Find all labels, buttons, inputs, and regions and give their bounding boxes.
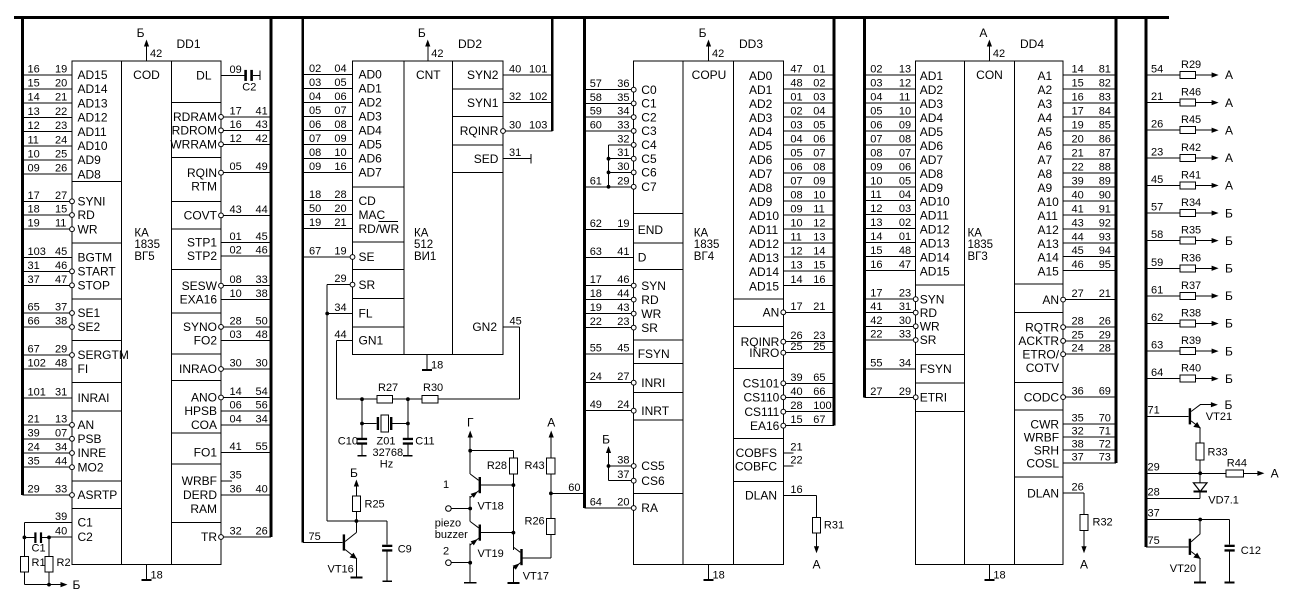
node junction VT16 collector (355, 519, 359, 523)
svg-text:AD1: AD1 (749, 83, 773, 97)
svg-text:15: 15 (870, 245, 882, 257)
svg-text:SYN2: SYN2 (467, 68, 499, 82)
svg-text:10: 10 (230, 288, 242, 300)
svg-text:38: 38 (256, 288, 268, 300)
DD4 pin A4 wire (pins 17/84) (1063, 116, 1116, 118)
DD4 pin AD2 wire (pins 03/12) (865, 88, 916, 90)
svg-text:41: 41 (256, 105, 268, 117)
svg-text:18: 18 (590, 288, 602, 300)
DD4 pin AD12 wire (pins 13/02) (865, 228, 916, 230)
wire 60 to DD3 left bus (551, 492, 585, 494)
svg-text:01: 01 (790, 91, 802, 103)
svg-text:C2: C2 (78, 530, 94, 544)
svg-text:10: 10 (334, 147, 346, 159)
svg-text:FO2: FO2 (194, 334, 218, 348)
svg-text:43: 43 (617, 302, 629, 314)
svg-text:09: 09 (870, 161, 882, 173)
svg-text:A6: A6 (1038, 139, 1053, 153)
svg-text:WR: WR (641, 307, 661, 321)
svg-text:14: 14 (790, 274, 802, 286)
DD2 left column section divider y=298.5 (353, 298, 405, 300)
DD1 pin INRE wire (pins 24/34) (23, 452, 73, 454)
svg-text:26: 26 (256, 526, 268, 538)
svg-text:32: 32 (509, 91, 521, 103)
DD3 right column section divider y=368.3 (733, 367, 783, 369)
DD4 pin AD3 wire (pins 04/11) (865, 102, 916, 104)
svg-text:69: 69 (1099, 386, 1111, 398)
svg-text:91: 91 (1099, 203, 1111, 215)
DD3 pin AD7 wire (pins 06/08) (783, 172, 834, 174)
svg-text:47: 47 (790, 63, 802, 75)
svg-text:Б: Б (1225, 206, 1233, 220)
svg-text:SYN1: SYN1 (467, 96, 499, 110)
svg-text:10: 10 (790, 218, 802, 230)
resistor R45 row (pin 26, net А) (1146, 129, 1180, 131)
wire pin 37 row (1146, 519, 1230, 521)
svg-text:Hz: Hz (380, 458, 393, 470)
DD3 pin RA wire (pins 64/20) (585, 507, 634, 509)
svg-text:A8: A8 (1038, 167, 1053, 181)
svg-text:61: 61 (590, 175, 602, 187)
DD2 pin SR wire (pin 29) (327, 284, 352, 286)
DD4 pin A7 wire (pins 21/87) (1063, 158, 1116, 160)
svg-text:RD: RD (920, 306, 938, 320)
svg-text:AD8: AD8 (920, 167, 944, 181)
svg-text:06: 06 (334, 91, 346, 103)
DD1 pin STOP wire (pins 37/47) (23, 284, 73, 286)
svg-text:AD14: AD14 (749, 265, 779, 279)
svg-text:03: 03 (870, 77, 882, 89)
svg-text:A10: A10 (1038, 195, 1060, 209)
DD1 pin FO2 wire (pins 03/48) (221, 340, 271, 342)
DD4 left column section divider y=285 (916, 284, 965, 286)
DD4 pin AN wire (pins 27/21) (1063, 299, 1116, 301)
DD1 pin STP2 wire (pins 02/46) (221, 255, 271, 257)
svg-text:12: 12 (870, 203, 882, 215)
svg-text:1835: 1835 (694, 239, 720, 251)
svg-text:COBFC: COBFC (735, 459, 777, 473)
svg-text:AD1: AD1 (359, 82, 383, 96)
DD4 right bus vertical (1115, 16, 1118, 463)
svg-text:37: 37 (28, 274, 40, 286)
svg-text:37: 37 (1072, 452, 1084, 464)
DD4 pin A15 wire (pins 46/95) (1063, 270, 1116, 272)
svg-text:45: 45 (256, 231, 268, 243)
DD1 pin FI wire (pins 102/48) (23, 368, 73, 370)
DD4 pin SRH wire (pins 38/72) (1063, 449, 1116, 451)
svg-text:C2: C2 (641, 110, 657, 124)
DD1 right column section divider y=353.9 (172, 353, 222, 355)
DD1 pin AD14 wire (pins 15/20) (23, 88, 73, 90)
svg-text:05: 05 (870, 105, 882, 117)
svg-text:R46: R46 (1181, 87, 1201, 99)
svg-text:INRE: INRE (78, 446, 107, 460)
DD3 pin 42 power stub with Б arrow (708, 43, 710, 61)
DD4 pin A13 wire (pins 44/93) (1063, 242, 1116, 244)
svg-text:ANO: ANO (191, 391, 217, 405)
DD4 pin WRBF wire (pins 32/71) (1063, 436, 1116, 438)
svg-text:14: 14 (28, 92, 40, 104)
svg-text:16: 16 (790, 484, 802, 496)
DD1 right column section divider y=228.8 (172, 228, 222, 230)
svg-text:Б: Б (1225, 234, 1233, 248)
svg-text:29: 29 (334, 273, 346, 285)
svg-text:А: А (1271, 467, 1279, 481)
svg-text:26: 26 (55, 163, 67, 175)
svg-text:R28: R28 (487, 460, 507, 472)
svg-text:05: 05 (790, 147, 802, 159)
DD3 pin RD wire (pins 18/44) (585, 299, 634, 301)
svg-text:А: А (812, 558, 820, 572)
svg-text:09: 09 (309, 161, 321, 173)
svg-text:25: 25 (813, 341, 825, 353)
svg-text:31: 31 (509, 147, 521, 159)
DD2 right column section divider y=116.6 (453, 116, 504, 118)
svg-text:CON: CON (976, 68, 1003, 82)
svg-text:42: 42 (712, 48, 724, 60)
resistor R32 (1083, 493, 1085, 514)
svg-text:A12: A12 (1038, 223, 1060, 237)
node junction VT20 collector (1198, 518, 1202, 522)
svg-text:38: 38 (617, 455, 629, 467)
svg-text:07: 07 (813, 147, 825, 159)
svg-text:STOP: STOP (78, 279, 110, 293)
DD2 pin 42 power stub with Б arrow (427, 43, 429, 61)
DD4 pin AD10 wire (pins 11/04) (865, 200, 916, 202)
svg-text:29: 29 (1099, 329, 1111, 341)
DD1 left column section divider y=243 (72, 242, 122, 244)
svg-text:RQTR: RQTR (1025, 320, 1059, 334)
wire pin 71 to VT21 base (1146, 415, 1189, 417)
svg-text:21: 21 (1072, 147, 1084, 159)
node junction wire 60 (549, 492, 553, 496)
svg-text:R30: R30 (423, 382, 443, 394)
DD3 pin AD3 wire (pins 02/04) (783, 116, 834, 118)
svg-text:63: 63 (1151, 340, 1163, 352)
svg-text:19: 19 (617, 218, 629, 230)
svg-text:42: 42 (431, 48, 443, 60)
svg-text:33: 33 (256, 274, 268, 286)
svg-text:AN: AN (763, 306, 780, 320)
DD1 pin AN wire (pins 21/13) (23, 424, 73, 426)
DD3 inner column divider left (682, 61, 684, 565)
DD2 left column section divider y=187 (353, 186, 405, 188)
svg-text:VD7.1: VD7.1 (1208, 495, 1239, 507)
DD1 right column section divider y=312.8 (172, 312, 222, 314)
DD1 pin PSB wire (pins 39/07) (23, 438, 73, 440)
DD3 pin C3 wire (pins 60/33) (585, 130, 634, 132)
svg-text:EA16: EA16 (750, 419, 780, 433)
svg-text:58: 58 (590, 92, 602, 104)
svg-text:A3: A3 (1038, 97, 1053, 111)
node junction R33/VD7.1/R44 (1198, 471, 1202, 475)
terminal 2 of piezo buzzer (446, 560, 452, 566)
svg-text:08: 08 (870, 147, 882, 159)
svg-text:RQIN: RQIN (187, 166, 217, 180)
svg-text:A1: A1 (1038, 69, 1053, 83)
DD4 inner column divider right (1014, 61, 1016, 565)
svg-text:R45: R45 (1181, 114, 1201, 126)
svg-text:CODC: CODC (1024, 390, 1060, 404)
svg-text:08: 08 (334, 119, 346, 131)
svg-text:12: 12 (28, 120, 40, 132)
svg-text:02: 02 (870, 64, 882, 76)
svg-text:92: 92 (1099, 217, 1111, 229)
svg-text:A7: A7 (1038, 153, 1053, 167)
svg-text:SYNI: SYNI (78, 195, 106, 209)
svg-text:R29: R29 (1181, 59, 1201, 71)
svg-text:13: 13 (870, 217, 882, 229)
svg-text:39: 39 (790, 372, 802, 384)
svg-text:COPU: COPU (692, 68, 727, 82)
svg-text:46: 46 (1072, 259, 1084, 271)
svg-text:R33: R33 (1208, 447, 1228, 459)
wire pin 29 row (1146, 472, 1226, 474)
svg-text:07: 07 (309, 133, 321, 145)
wire R43 bottom to R26 top (550, 474, 552, 519)
node junction C1 right (47, 536, 51, 540)
resistor R2 (48, 537, 50, 556)
node junction R27 left (360, 397, 364, 401)
svg-text:31: 31 (617, 147, 629, 159)
svg-text:17: 17 (28, 190, 40, 202)
svg-text:04: 04 (309, 91, 321, 103)
svg-text:WRBF: WRBF (1024, 430, 1059, 444)
svg-text:MO2: MO2 (78, 460, 104, 474)
svg-text:AD6: AD6 (749, 153, 773, 167)
DD2 inner column divider left (403, 61, 405, 355)
svg-text:COTV: COTV (1026, 361, 1059, 375)
DD1 left column section divider y=340.4 (72, 339, 122, 341)
DD4 pin A10 wire (pins 40/90) (1063, 200, 1116, 202)
svg-text:34: 34 (256, 413, 268, 425)
svg-text:1: 1 (443, 479, 449, 491)
DD4 pin A12 wire (pins 43/92) (1063, 228, 1116, 230)
svg-text:AD13: AD13 (749, 251, 779, 265)
svg-text:RDRAM: RDRAM (173, 110, 217, 124)
resistor R1 (23, 537, 25, 556)
svg-text:A13: A13 (1038, 237, 1060, 251)
svg-text:16: 16 (28, 63, 40, 75)
svg-text:27: 27 (55, 190, 67, 202)
svg-text:19: 19 (55, 63, 67, 75)
far right bus vertical (1145, 16, 1148, 547)
svg-text:FI: FI (78, 362, 89, 376)
resistor R27 (377, 395, 393, 403)
wire bracket C4-C7 (608, 145, 610, 187)
DD1 pin RDRAM wire (pins 17/41) (221, 116, 271, 118)
DD1 right column section divider y=380.6 (172, 380, 222, 382)
DD3 pin CS5 wire (pin 38) (609, 465, 634, 467)
svg-text:AD6: AD6 (920, 139, 944, 153)
DD1 pin RDROM wire (pins 16/43) (221, 129, 271, 131)
svg-text:59: 59 (1151, 257, 1163, 269)
svg-text:05: 05 (230, 161, 242, 173)
wire R32 to net A arrow (1083, 531, 1085, 547)
svg-text:21: 21 (1099, 288, 1111, 300)
svg-text:18: 18 (309, 189, 321, 201)
svg-text:12: 12 (230, 133, 242, 145)
DD4 pin 18 ground stub (988, 565, 990, 581)
svg-text:R25: R25 (365, 499, 385, 511)
svg-text:AD9: AD9 (920, 181, 944, 195)
svg-text:39: 39 (1072, 175, 1084, 187)
svg-text:01: 01 (899, 231, 911, 243)
svg-text:AD15: AD15 (78, 68, 108, 82)
DD3 pin C5 wire (pin 31) (609, 158, 634, 160)
resistor R43 (547, 458, 555, 474)
svg-text:36: 36 (617, 78, 629, 90)
svg-text:03: 03 (309, 77, 321, 89)
resistor R37 row (pin 61, net Б) (1146, 295, 1180, 297)
svg-text:72: 72 (1099, 439, 1111, 451)
svg-text:AD12: AD12 (749, 237, 779, 251)
transistor VT19 (479, 525, 481, 541)
DD1 pin START wire (pins 31/46) (23, 270, 73, 272)
svg-text:CWR: CWR (1030, 417, 1059, 431)
svg-text:VT16: VT16 (328, 564, 354, 576)
svg-text:buzzer: buzzer (435, 529, 468, 541)
svg-text:Б: Б (418, 26, 426, 40)
svg-text:ETRO/: ETRO/ (1022, 347, 1059, 361)
svg-text:А: А (1225, 151, 1233, 165)
svg-text:31: 31 (55, 387, 67, 399)
svg-text:29: 29 (28, 484, 40, 496)
svg-text:12: 12 (790, 246, 802, 258)
DD3 left bus vertical (583, 16, 586, 508)
svg-text:38: 38 (1072, 439, 1084, 451)
DD3 right bus vertical (833, 16, 836, 426)
wire pin 75 to VT20 base (1146, 546, 1189, 548)
svg-text:COBFS: COBFS (736, 446, 777, 460)
svg-text:CS5: CS5 (641, 459, 665, 473)
controller IC DD3 KA1835VG4 outer box (634, 61, 784, 565)
svg-text:48: 48 (790, 77, 802, 89)
DD1 pin 42 power stub with Б arrow (146, 43, 148, 61)
svg-text:67: 67 (813, 414, 825, 426)
svg-text:48: 48 (899, 245, 911, 257)
svg-text:FSYN: FSYN (920, 362, 952, 376)
svg-text:A14: A14 (1038, 251, 1060, 265)
DD4 left column section divider y=354.7 (916, 354, 965, 356)
svg-text:82: 82 (1099, 77, 1111, 89)
svg-text:09: 09 (790, 204, 802, 216)
svg-text:AD0: AD0 (359, 68, 383, 82)
svg-text:48: 48 (55, 358, 67, 370)
svg-text:07: 07 (334, 105, 346, 117)
svg-text:36: 36 (230, 484, 242, 496)
svg-text:87: 87 (1099, 147, 1111, 159)
svg-text:INRAO: INRAO (179, 362, 217, 376)
svg-text:54: 54 (1151, 64, 1163, 76)
DD1 pin INRAO wire (pins 30/30) (221, 368, 271, 370)
svg-text:AD14: AD14 (78, 82, 108, 96)
svg-text:24: 24 (617, 399, 629, 411)
svg-text:18: 18 (28, 204, 40, 216)
svg-text:R40: R40 (1181, 363, 1201, 375)
svg-text:11: 11 (790, 232, 801, 244)
svg-text:24: 24 (1072, 343, 1084, 355)
DD4 right column section divider y=312.6 (1015, 312, 1064, 314)
svg-text:20: 20 (334, 203, 346, 215)
svg-text:DD3: DD3 (739, 37, 763, 51)
svg-text:AD14: AD14 (920, 251, 950, 265)
DD3 pin FSYN wire (pins 55/45) (585, 353, 634, 355)
node junction terminal 2 / VT19 emitter (468, 561, 472, 565)
svg-text:16: 16 (870, 259, 882, 271)
wire R26 bottom to VT17 base (550, 535, 552, 558)
svg-text:21: 21 (813, 301, 825, 313)
svg-text:Б: Б (1225, 344, 1233, 358)
DD1 pin EXA16 wire (pins 10/38) (221, 298, 271, 300)
wire collector node to C9 (356, 520, 387, 522)
svg-text:12: 12 (899, 77, 911, 89)
DD1 pin RD wire (pins 18/15) (23, 214, 73, 216)
DD4 pin ETRO/ wire (pins 24/28) (1063, 353, 1116, 355)
svg-text:02: 02 (899, 217, 911, 229)
svg-text:43: 43 (256, 119, 268, 131)
svg-text:17: 17 (1072, 105, 1084, 117)
DD3 left column section divider y=213.5 (634, 213, 683, 215)
DD2 pin AD7 wire (pins 09/16) (303, 171, 353, 173)
svg-text:R35: R35 (1181, 225, 1201, 237)
svg-text:Б: Б (137, 26, 145, 40)
DD2 pin FL wire (pin 34) (327, 313, 352, 315)
svg-text:100: 100 (813, 400, 831, 412)
DD1 pin HPSB wire (pins 06/56) (221, 410, 271, 412)
svg-text:A2: A2 (1038, 83, 1053, 97)
svg-text:R43: R43 (525, 460, 545, 472)
svg-text:08: 08 (790, 190, 802, 202)
svg-text:DL: DL (196, 69, 212, 83)
DD3 pin AD0 wire (pins 47/01) (783, 74, 834, 76)
DD2 pin AD6 wire (pins 08/10) (303, 157, 353, 159)
svg-text:47: 47 (899, 259, 911, 271)
svg-text:DD4: DD4 (1020, 37, 1044, 51)
svg-text:AD10: AD10 (78, 139, 108, 153)
svg-text:28: 28 (1072, 316, 1084, 328)
svg-text:59: 59 (590, 106, 602, 118)
svg-text:103: 103 (529, 120, 547, 132)
svg-text:17: 17 (790, 301, 802, 313)
svg-text:50: 50 (256, 315, 268, 327)
svg-text:101: 101 (28, 387, 46, 399)
svg-text:23: 23 (899, 288, 911, 300)
svg-text:Z01: Z01 (377, 436, 396, 448)
svg-text:КА: КА (414, 228, 429, 240)
svg-text:08: 08 (309, 147, 321, 159)
transistor VT21 (1189, 408, 1191, 424)
svg-text:18: 18 (431, 360, 443, 372)
DD4 pin AD7 wire (pins 08/07) (865, 158, 916, 160)
svg-text:RD/WR: RD/WR (359, 222, 400, 236)
DD1 right column section divider y=464 (172, 463, 222, 465)
ground bar below VT19 (464, 582, 477, 584)
svg-text:84: 84 (1099, 105, 1111, 117)
DD4 pin DLAN wire (pin 26) (1063, 492, 1084, 494)
node junction crystal right (406, 422, 410, 426)
svg-text:CNT: CNT (416, 68, 441, 82)
svg-text:C10: C10 (338, 436, 358, 448)
resistor R30 (422, 395, 438, 403)
svg-text:64: 64 (590, 497, 602, 509)
svg-text:DD2: DD2 (458, 37, 482, 51)
svg-text:85: 85 (1099, 119, 1111, 131)
svg-text:07: 07 (899, 147, 911, 159)
svg-text:20: 20 (617, 497, 629, 509)
svg-text:CS111: CS111 (744, 405, 779, 419)
resistor R41 row (pin 45, net А) (1146, 184, 1180, 186)
